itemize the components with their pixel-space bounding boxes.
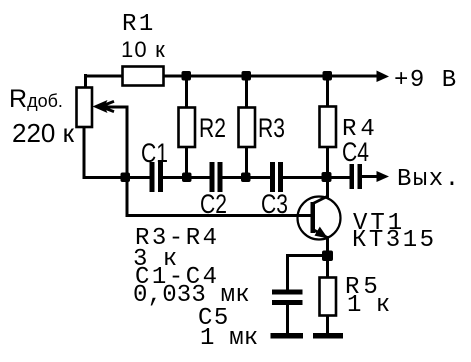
junction dot R2 bottom node — [182, 173, 192, 183]
wire from rail down to potentiometer top — [84, 74, 87, 89]
label C3 — [261, 191, 288, 218]
label R2 — [199, 115, 226, 142]
label C1 — [141, 140, 168, 167]
junction dot top rail at R3 — [242, 71, 252, 81]
resistor R1 — [123, 67, 164, 86]
resistor R3 — [239, 108, 256, 148]
resistor R4 — [320, 107, 337, 148]
label KT315 — [352, 229, 437, 253]
junction dot top rail at R2 — [182, 71, 192, 81]
wire top rail right of R1 to +9V arrow — [162, 75, 378, 78]
transistor VT1 collector stroke — [313, 196, 328, 204]
transistor VT1 base bar — [311, 202, 316, 233]
wire R5 bottom to ground — [326, 314, 329, 334]
wire C5 top vertical — [286, 254, 289, 291]
junction dot emitter node — [322, 251, 333, 262]
wire top rail left segment — [84, 75, 124, 78]
wire C3 to collector node and C4 — [283, 176, 350, 179]
junction dot collector node — [322, 172, 332, 182]
label C4 — [342, 139, 369, 166]
wire R4 top vertical — [326, 74, 329, 108]
label +9V rail — [394, 69, 458, 93]
potentiometer wiper barbs — [99, 100, 115, 113]
label VT1 — [353, 212, 405, 236]
resistor R5 — [320, 278, 337, 316]
value 220 k of Rdob — [12, 120, 74, 146]
value 1 k of R5 — [347, 294, 390, 318]
wire R3 top vertical — [245, 74, 248, 109]
note C5 — [198, 307, 230, 331]
arrow output — [377, 171, 390, 182]
capacitor C5 plates — [272, 290, 303, 306]
capacitor C3 plates — [270, 162, 283, 192]
wire R3 bottom vertical — [245, 146, 248, 178]
ground under R5 — [313, 333, 343, 339]
note C1-C4 — [135, 266, 220, 290]
capacitor C1 plates — [150, 162, 164, 192]
wire C4 to output arrow — [362, 175, 378, 178]
label R1 — [122, 13, 156, 37]
wire C2 to C3 — [223, 176, 271, 179]
note 3 k — [133, 248, 178, 272]
potentiometer Rdob — [77, 88, 93, 128]
label R5 — [345, 276, 382, 300]
wire wiper feedback vertical down to base line — [126, 106, 129, 217]
label output — [397, 168, 461, 192]
wire emitter node to R5 vertical — [326, 255, 329, 279]
junction dot input node — [121, 173, 131, 183]
wire base line horizontal to transistor base — [126, 214, 312, 217]
capacitor C4 plates — [350, 164, 363, 189]
label R4 — [342, 118, 379, 142]
wire node line pot to C1 — [83, 176, 150, 179]
note 1 mk — [200, 327, 258, 351]
wire C5 bottom to ground — [286, 304, 289, 334]
note R3-R4 — [135, 227, 220, 251]
junction dot top rail at R4 — [323, 71, 333, 81]
wire C1 to C2 — [163, 176, 210, 179]
transistor VT1 emitter arrowhead — [315, 227, 329, 239]
wire R2 bottom vertical — [185, 146, 188, 178]
label C2 — [200, 191, 227, 218]
wire potentiometer bottom vertical — [83, 126, 86, 179]
transistor VT1 emitter stroke — [313, 230, 328, 239]
wire wiper horizontal shaft — [97, 106, 129, 109]
note 0,033 mk — [133, 284, 250, 308]
ground under C5 — [271, 333, 304, 339]
label Rdob — [9, 87, 63, 112]
junction dot R3 bottom node — [241, 173, 251, 183]
wire emitter node to C5 horizontal — [286, 254, 327, 257]
value 10 k of R1 — [121, 39, 166, 61]
wire R2 top vertical — [185, 74, 188, 109]
label R3 — [258, 115, 285, 142]
transistor VT1 circle — [298, 197, 341, 240]
wire R4 bottom vertical — [326, 146, 329, 178]
arrow +9V — [377, 71, 390, 83]
potentiometer wiper arrowhead — [93, 100, 108, 113]
wire collector vertical — [326, 176, 329, 198]
wire emitter vertical — [326, 236, 329, 258]
capacitor C2 plates — [210, 162, 223, 192]
resistor R2 — [179, 108, 196, 148]
